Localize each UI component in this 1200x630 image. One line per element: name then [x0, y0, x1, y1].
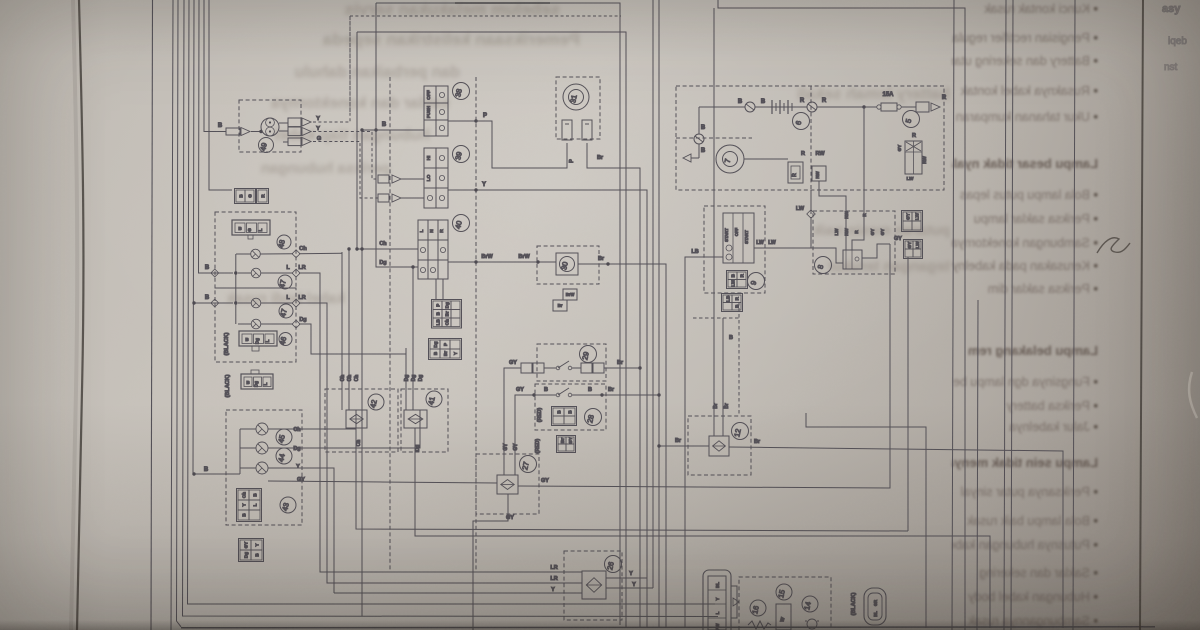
circled 31 — [569, 90, 584, 105]
component 8 dashed box — [813, 211, 895, 274]
dashed top rail — [350, 15, 621, 17]
component 49 dashed box — [239, 100, 301, 152]
wire Br to 12 left — [659, 445, 709, 447]
wire bundle line 3 — [183, 0, 719, 617]
wire GY from 27 down — [473, 494, 508, 630]
circled 49 — [259, 138, 274, 153]
wire BrW from 40 — [448, 261, 556, 263]
scratch artifact — [1189, 372, 1197, 418]
connector block BGR right — [257, 189, 269, 204]
wire Ch to flasher — [268, 428, 346, 430]
wire Dg jog — [299, 324, 406, 354]
wire GY block drop — [907, 257, 909, 531]
relay 49 coils — [266, 118, 275, 127]
ignition dashed box — [676, 86, 944, 190]
wire L-LR front — [238, 272, 251, 274]
component 48-47 dashed box — [215, 212, 296, 288]
bus wire right e — [1073, 0, 1075, 630]
connector RW block — [812, 166, 826, 181]
battery 6 cells — [771, 100, 773, 114]
switch enclosure dashed top — [349, 16, 351, 112]
wire B down left — [698, 107, 700, 134]
wire Br into 12 a — [713, 8, 715, 436]
wire LW to relay — [811, 217, 843, 263]
wire Br from 29 — [604, 367, 640, 369]
component 29 dashed box — [537, 344, 606, 381]
circled 39 — [453, 146, 470, 163]
circled 29 — [580, 346, 597, 363]
circled 38 — [453, 83, 470, 100]
main switch connector — [916, 102, 929, 112]
turn lamp 47 rear — [251, 298, 261, 308]
schematic bottom border — [181, 627, 1155, 628]
connector block 28b — [557, 436, 576, 453]
connector Y into 39 — [378, 175, 389, 183]
bleed-through text column — [952, 0, 1102, 630]
connector block 9 — [727, 271, 748, 289]
connector R block — [788, 162, 803, 183]
wire GY from 27 right — [518, 244, 890, 488]
top rail dark segment — [455, 2, 550, 4]
CDI connector housing — [703, 570, 731, 630]
wire GY from relay — [862, 244, 890, 258]
wire bundle line 7 to relay 49 — [204, 0, 226, 132]
switch 39 body — [424, 148, 448, 208]
component 47b dashed box — [215, 288, 296, 362]
wire B drop — [235, 254, 237, 303]
wire Br from horn — [587, 143, 640, 628]
wire Dg trio c — [415, 410, 420, 448]
wire Y bus — [334, 592, 582, 594]
wire lamp48 — [236, 253, 251, 255]
circled 9 — [748, 273, 765, 290]
wire Br from 12 right — [729, 447, 1063, 628]
meter lamp c — [256, 462, 268, 474]
terminal B mid — [694, 134, 704, 144]
connector block 9b — [722, 294, 743, 312]
circled 12 — [732, 423, 749, 440]
wire from generator — [744, 158, 788, 160]
component 12 dashed box — [688, 416, 751, 475]
node Dg — [292, 320, 300, 328]
spark plug 14 — [807, 619, 817, 629]
wire step to bottom — [806, 413, 926, 628]
wire R down to relay — [852, 107, 864, 250]
wire bundle line 1 — [171, 0, 173, 630]
connector block 48 — [232, 220, 270, 235]
connector into 49 — [226, 128, 240, 135]
circled 47 front — [278, 275, 292, 289]
connector G into 39 — [378, 194, 389, 202]
wire L-LR rear — [238, 302, 251, 304]
arrow G pin — [302, 138, 311, 146]
connector block GY-LW mid — [902, 211, 923, 232]
circled 7 — [723, 152, 738, 167]
wire top rail 2 — [357, 32, 626, 628]
flasher 42 unit — [346, 410, 367, 428]
dashed wire G to dimmer — [313, 142, 378, 199]
ghost bleed-through headlines under schematic — [0, 0, 950, 630]
switch 38 body — [424, 86, 448, 136]
wire RW down — [819, 181, 846, 250]
wire B to 38 — [362, 129, 424, 131]
CDI bracket — [731, 586, 737, 618]
lamp feed vertical — [239, 429, 241, 474]
tail lamp 46a — [251, 319, 261, 329]
meter lamp b — [256, 442, 268, 454]
wire Y down — [268, 468, 334, 593]
rectifier 30 body — [556, 253, 578, 275]
connector BrW below 30 — [563, 289, 577, 300]
ground — [683, 154, 691, 162]
starter switch 9 body — [723, 213, 754, 263]
node Ch — [292, 250, 300, 258]
circled 48 — [277, 235, 291, 249]
wire GY to 29 — [504, 368, 521, 475]
battery terminal right — [807, 102, 817, 112]
wire to ground — [698, 144, 700, 158]
flasher 41 unit — [404, 410, 427, 428]
connector block spare — [239, 539, 264, 562]
diode 12 unit — [709, 436, 729, 456]
brake switch 29 contacts — [521, 363, 532, 373]
circled 46 — [279, 333, 292, 346]
wire Ch trio a — [341, 252, 343, 410]
wire top rail 1 — [376, 3, 620, 625]
page fold line — [77, 0, 83, 630]
circled 40 — [453, 215, 470, 232]
bus wire right b — [977, 300, 978, 630]
wire main R — [699, 106, 745, 108]
circled 42 — [368, 394, 384, 410]
wire Ch trio b — [348, 249, 350, 410]
component 27 dashed box — [476, 454, 539, 514]
wire vertical to bottom rail — [361, 130, 363, 617]
component 31 dashed box — [556, 77, 600, 139]
resistor 16 — [748, 621, 771, 629]
circled 30 — [560, 257, 575, 272]
wire Dg trio a — [405, 348, 407, 410]
connector block 28 — [552, 407, 577, 426]
circled 16 — [750, 600, 766, 616]
wire Dg below 41 — [415, 428, 990, 628]
circled 14 — [802, 596, 818, 612]
circled 44 — [276, 448, 292, 464]
circled 26 — [605, 556, 622, 573]
ignition coil 15 — [776, 604, 791, 630]
wire harness left border — [151, 0, 153, 630]
switch enclosure dashed right — [475, 77, 477, 570]
wire LW node — [810, 190, 812, 214]
component 42 dashed box — [325, 389, 398, 452]
wire Br from 30 — [578, 264, 666, 628]
circled 41 — [426, 391, 442, 407]
component 28 dashed box — [535, 384, 606, 430]
switch enclosure dashed left — [389, 77, 391, 570]
connector block BGR left — [235, 189, 256, 204]
connector block 43 — [237, 489, 262, 522]
circled 8 — [815, 257, 832, 274]
dashed wire Y to dimmer — [313, 132, 378, 180]
relay 49 outer — [261, 118, 279, 136]
connector block 46b — [241, 374, 273, 389]
CDI dashed box — [739, 577, 831, 630]
wire bundle line 2 — [177, 0, 182, 627]
connector below 40 — [432, 300, 462, 329]
wire Ch trio c — [346, 410, 356, 429]
meter lamp a — [256, 423, 268, 435]
circled 6 — [793, 113, 810, 130]
wire GY to 28 — [515, 395, 534, 475]
wire P to horn — [476, 121, 567, 168]
starter relay 8 body — [843, 250, 862, 269]
wire rail 2 drop Ch — [357, 32, 418, 249]
bus wire right c — [1004, 0, 1006, 630]
circled 43 — [280, 497, 296, 513]
bus wire right d — [1011, 0, 1013, 630]
wire Dg to flasher — [268, 447, 415, 449]
flasher 26 unit — [582, 571, 606, 599]
dashed wire Y to top rail — [313, 16, 350, 122]
wire bundle line 6 turning to node B — [199, 0, 213, 273]
circled 27 — [520, 456, 537, 473]
wire bundle line 8 to connector — [209, 0, 232, 190]
wire GY to 27 — [268, 481, 497, 483]
wire Y right 1 — [606, 577, 647, 579]
schematic top border right — [718, 0, 965, 630]
wire bundle line 5 — [193, 0, 240, 474]
wire LW from switch — [754, 247, 811, 249]
flasher 27 unit — [497, 475, 518, 494]
switch 40 body — [418, 220, 448, 279]
circled 15 — [776, 584, 792, 600]
circled 45 — [276, 429, 292, 445]
node B feed 2 — [212, 302, 233, 304]
dashed divider — [810, 86, 812, 190]
wire P from 38 — [448, 120, 476, 122]
horn 31 body — [563, 84, 589, 110]
component 43-45 dashed box — [226, 410, 302, 525]
pins right of 49 — [279, 122, 288, 124]
bus wire a — [652, 0, 654, 588]
arrow Y2 pin — [302, 128, 311, 136]
generator 7 — [716, 145, 744, 173]
connector block GY-LW low — [904, 240, 923, 259]
connector Br below 30 — [553, 300, 567, 311]
connector below 40 b — [429, 339, 462, 360]
wire rail 1 drop Dg — [376, 3, 418, 267]
horn terminal left — [562, 120, 572, 140]
bus wire right a — [952, 0, 954, 630]
dashed wire B — [738, 302, 740, 416]
wire Br from 28 — [602, 394, 659, 396]
circled 47 rear — [279, 304, 293, 318]
connector block 46 — [239, 331, 277, 346]
hair artifact — [1097, 238, 1130, 253]
wire Ch below 42 — [356, 428, 908, 531]
node B feed — [212, 272, 233, 274]
battery terminal left — [745, 102, 755, 112]
turn lamp 47 front — [251, 268, 261, 278]
circled 5 — [903, 111, 920, 128]
horn terminal right — [582, 120, 592, 140]
wire Br into 12 b — [722, 318, 724, 436]
brake switch 28 contacts — [532, 393, 535, 396]
page gutter line right — [1140, 0, 1143, 630]
arrow Y pin — [302, 118, 311, 126]
node LR front — [292, 269, 300, 277]
wire Y from 39 — [448, 190, 647, 628]
wire B to lamps — [192, 472, 195, 475]
component 9 dashed box — [704, 206, 765, 293]
component 30 dashed box — [537, 246, 599, 284]
sub dashed box — [676, 137, 752, 139]
component 26 dashed box — [564, 551, 622, 620]
component 41 dashed box — [401, 389, 448, 452]
wire Dg trio b — [412, 267, 414, 410]
wire bundle line 4 — [188, 0, 716, 604]
node LR rear — [292, 299, 300, 307]
bus wire b — [658, 0, 660, 628]
wire LB from switch — [685, 257, 723, 628]
connector GR BL oval — [864, 588, 886, 625]
pilot lamp 48 — [251, 249, 261, 259]
circled 28 — [585, 409, 602, 426]
wire Y right 2 — [606, 587, 653, 589]
